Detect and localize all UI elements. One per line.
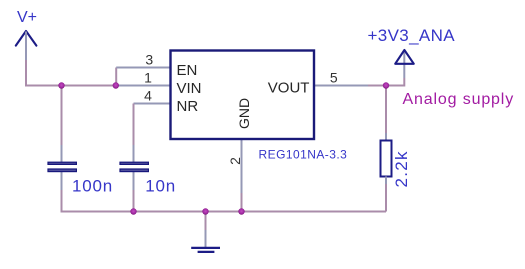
wire bottom rail bbox=[134, 211, 387, 213]
svg-text:NR: NR bbox=[177, 98, 199, 115]
svg-text:EN: EN bbox=[177, 62, 198, 79]
ground symbol bbox=[191, 248, 220, 252]
wire VOUT to junction bbox=[368, 85, 386, 87]
wire V+ to rail bbox=[26, 60, 62, 86]
wire GND pin to rail bbox=[241, 193, 243, 212]
svg-text:VIN: VIN bbox=[177, 80, 202, 97]
pin R1 bottom stub bbox=[385, 177, 387, 185]
junction V+ / C1 bbox=[58, 82, 64, 88]
junction ground / rail bbox=[202, 208, 208, 214]
wire C2 to bottom rail bbox=[133, 190, 135, 212]
wire junction to resistor bbox=[385, 86, 387, 134]
wire NR drop to C2 bbox=[133, 104, 135, 146]
wire C1 to bottom rail bbox=[62, 190, 134, 212]
capacitor C2 10n plates bbox=[120, 162, 148, 171]
wire C1 drop bbox=[61, 86, 63, 146]
wire ground branch bbox=[205, 212, 207, 231]
pin NR stub bbox=[134, 103, 171, 105]
resistor 2.2k body bbox=[381, 141, 392, 177]
pin C1 bottom stub bbox=[61, 171, 63, 190]
junction GND pin / rail bbox=[238, 208, 244, 214]
wire resistor to bottom rail bbox=[385, 184, 387, 212]
pin R1 top stub bbox=[385, 133, 387, 141]
junction C2 / rail bbox=[130, 208, 136, 214]
junction VOUT / R bbox=[383, 82, 389, 88]
wire junction to +3V3 stem bbox=[386, 78, 404, 86]
wire rail to VIN junction bbox=[62, 85, 116, 87]
pin VIN stub bbox=[116, 85, 171, 87]
regulator U1 REG101NA-3.3 body bbox=[171, 51, 315, 140]
svg-text:100n: 100n bbox=[72, 177, 113, 196]
wire EN riser bbox=[115, 68, 117, 87]
pin C2 bottom stub bbox=[133, 171, 135, 190]
pin C2 top stub bbox=[133, 145, 135, 163]
pin +3V3 arrow stub bbox=[403, 51, 405, 79]
svg-text:10n: 10n bbox=[145, 177, 176, 196]
svg-text:2: 2 bbox=[227, 157, 243, 165]
svg-text:REG101NA-3.3: REG101NA-3.3 bbox=[259, 148, 348, 162]
svg-text:Analog supply: Analog supply bbox=[403, 91, 515, 108]
svg-text:GND: GND bbox=[236, 98, 252, 129]
svg-text:1: 1 bbox=[144, 70, 152, 86]
supply V+ pin stub bbox=[25, 32, 27, 61]
capacitor C1 100n plates bbox=[48, 162, 76, 171]
junction VIN / EN bbox=[113, 82, 119, 88]
pin C1 top stub bbox=[61, 145, 63, 163]
svg-text:2.2k: 2.2k bbox=[392, 150, 411, 187]
pin VOUT stub bbox=[314, 85, 368, 87]
svg-text:4: 4 bbox=[144, 88, 152, 104]
pin GND stub (pin 2) bbox=[241, 139, 243, 193]
svg-text:+3V3_ANA: +3V3_ANA bbox=[368, 26, 456, 45]
svg-text:3: 3 bbox=[145, 52, 153, 68]
supply symbol +3V3_ANA triangle bbox=[395, 50, 414, 64]
pin EN stub bbox=[116, 67, 170, 69]
svg-text:5: 5 bbox=[330, 70, 338, 86]
pin ground stub bbox=[205, 230, 207, 247]
supply symbol V+ arrow bbox=[16, 31, 37, 46]
svg-text:V+: V+ bbox=[17, 9, 37, 26]
svg-text:VOUT: VOUT bbox=[268, 80, 310, 97]
